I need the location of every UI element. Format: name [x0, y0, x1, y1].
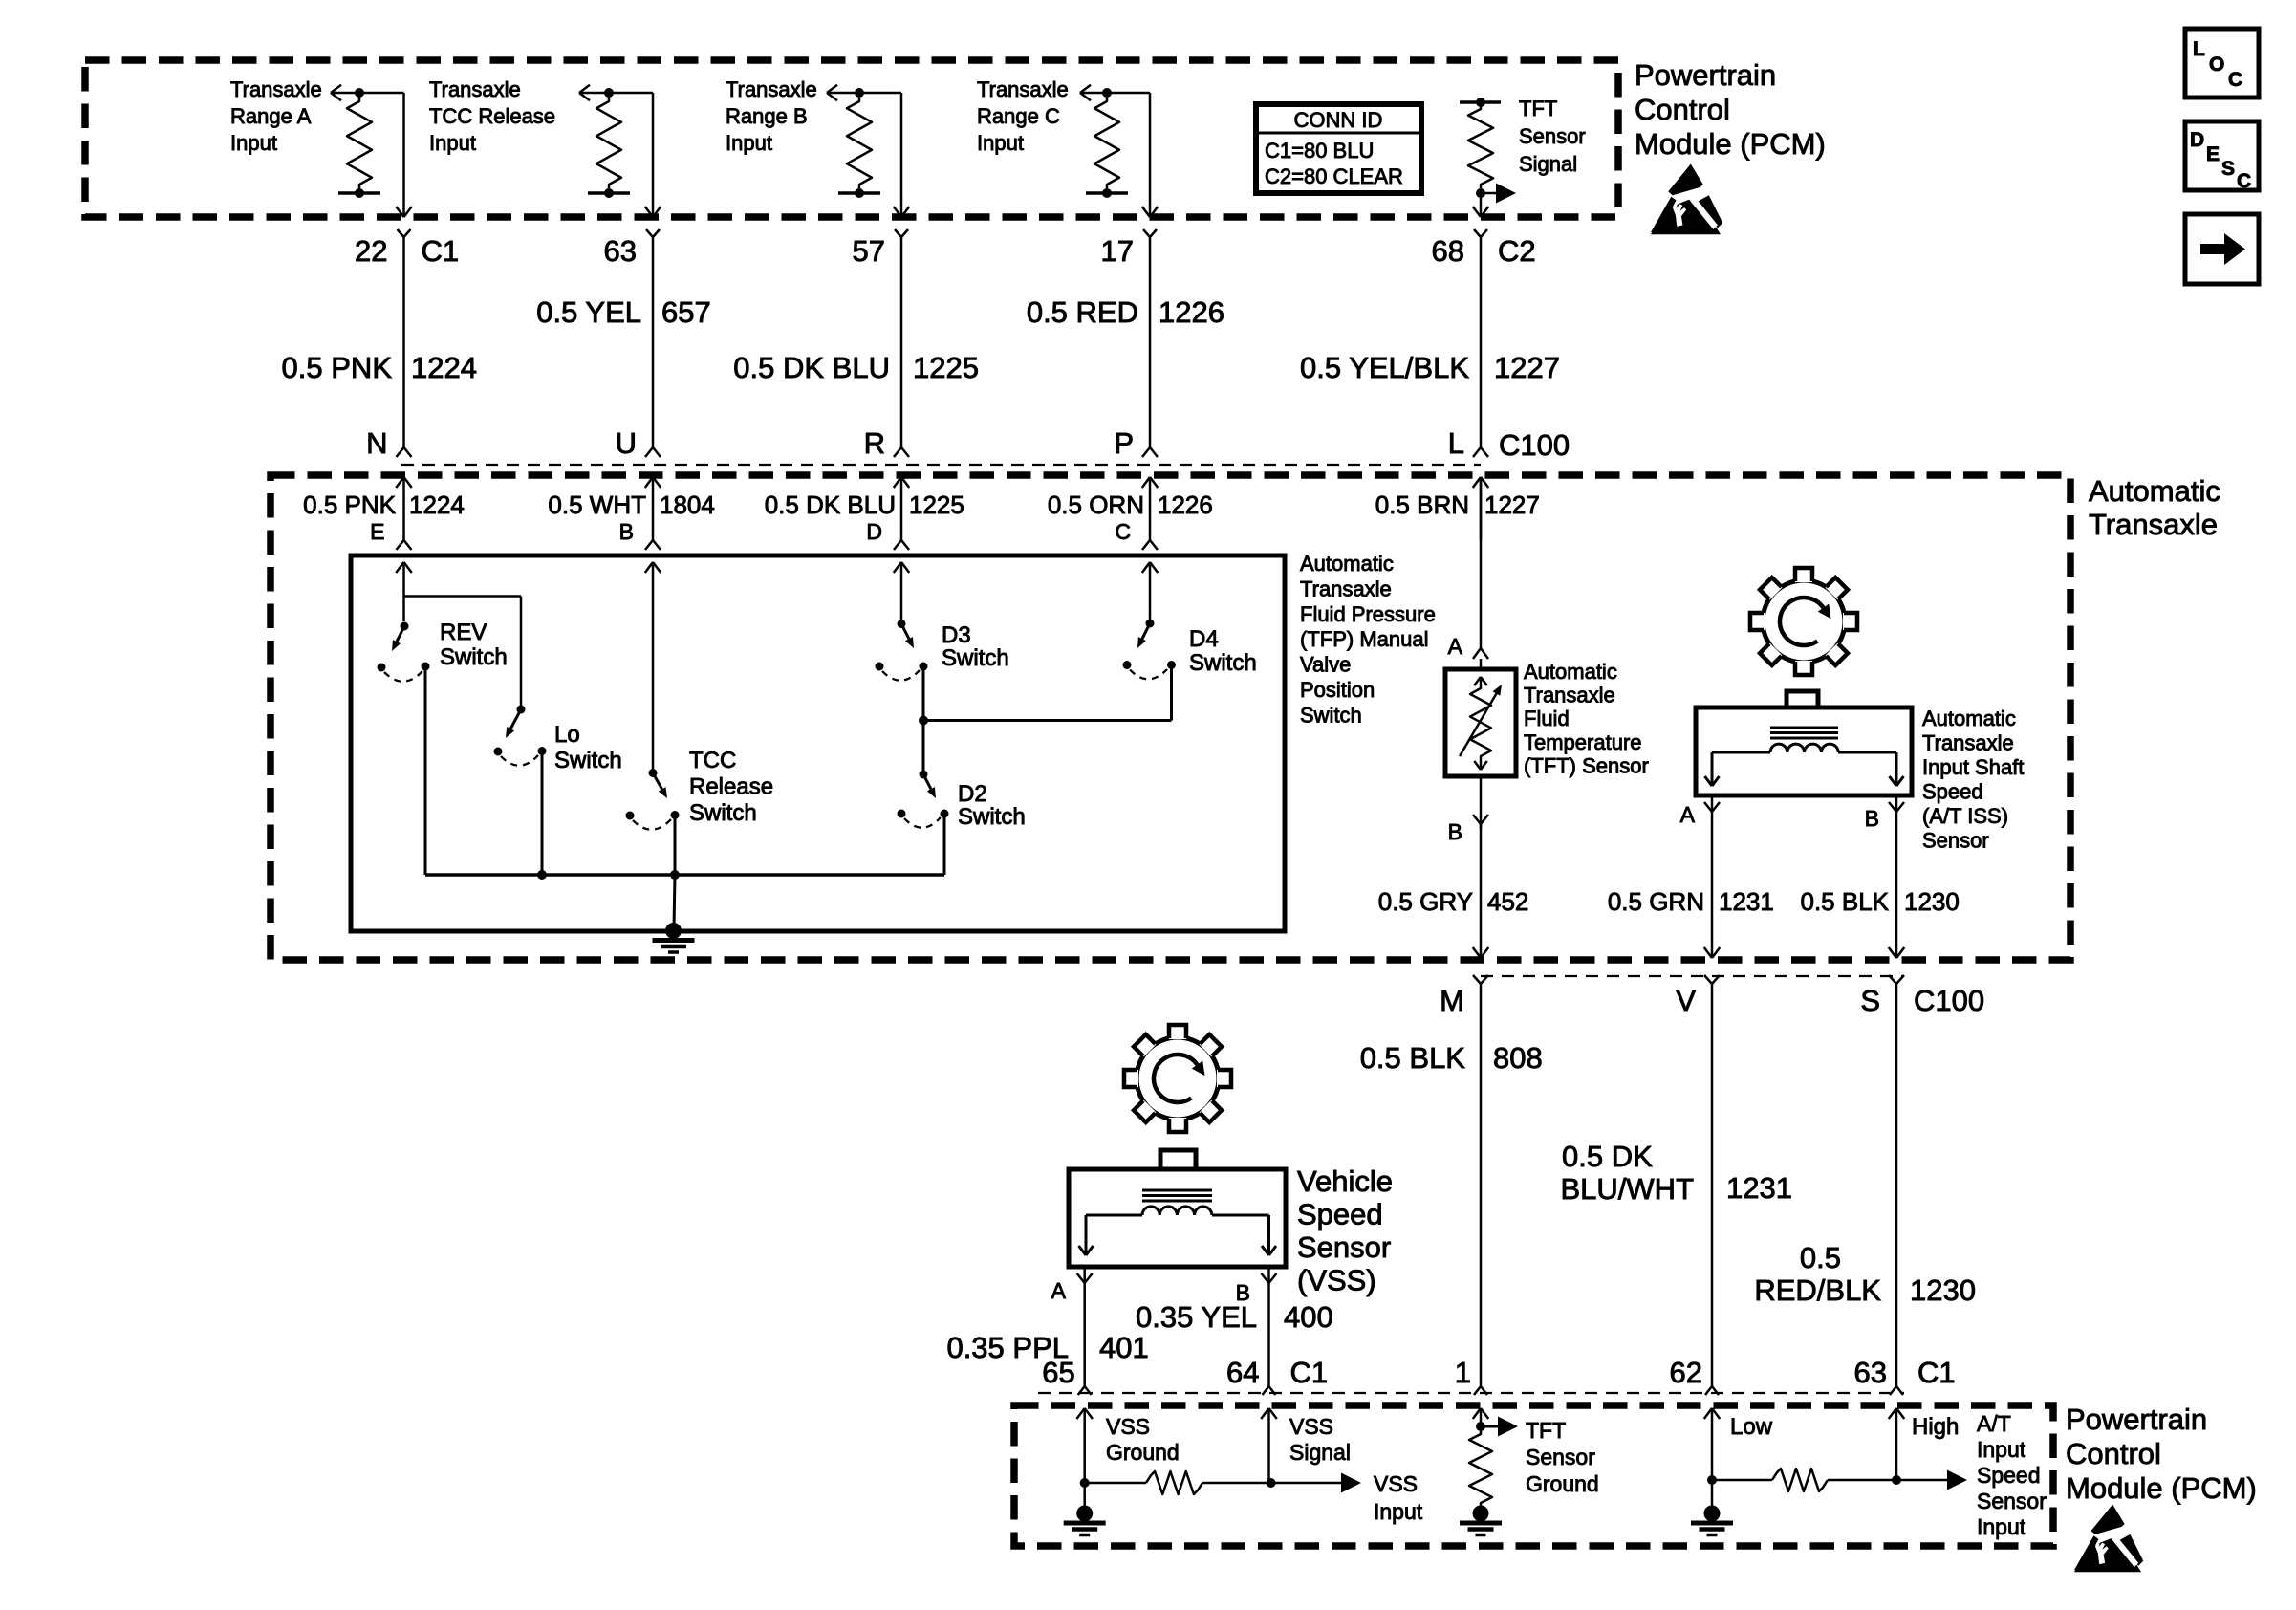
A/T ISS pin A: [1680, 795, 1720, 827]
svg-text:TFT: TFT: [1526, 1418, 1566, 1443]
node VSS signal junction: [1267, 1478, 1276, 1488]
svg-text:U: U: [616, 426, 637, 460]
wire PCM output C: [1107, 93, 1158, 217]
forward arrow legend box: [2185, 214, 2259, 284]
svg-text:S: S: [1860, 984, 1880, 1017]
pin number 17: [1101, 234, 1134, 268]
connector name C1 (bottom): [1290, 1356, 1329, 1389]
svg-text:C1: C1: [1917, 1356, 1956, 1389]
svg-text:C1=80 BLU: C1=80 BLU: [1265, 139, 1374, 163]
switch D4: [1123, 620, 1177, 680]
label VSS Input: [1374, 1471, 1423, 1524]
wire switch common bus: [425, 873, 944, 877]
svg-text:P: P: [1114, 426, 1134, 460]
label Automatic Transaxle Fluid Pressure (TFP) Manual Valve Position Switch: [1300, 552, 1436, 727]
wire label 0.5 ORN 1226 (transaxle): [1048, 490, 1213, 519]
svg-text:0.5 YEL/BLK: 0.5 YEL/BLK: [1300, 351, 1469, 384]
label TCC Release Switch: [689, 748, 773, 826]
connector C100 line (upper): [401, 464, 1481, 466]
label Transaxle TCC Release Input: [429, 77, 555, 155]
svg-text:Transaxle: Transaxle: [977, 77, 1069, 101]
svg-text:Signal: Signal: [1519, 152, 1577, 176]
svg-text:1804: 1804: [660, 490, 715, 519]
svg-text:Sensor: Sensor: [1922, 829, 1989, 853]
resistor PCM pull-up TCC: [588, 88, 630, 198]
DESC legend box: [2185, 121, 2259, 192]
svg-text:Ground: Ground: [1526, 1471, 1599, 1496]
TFT sensor variable resistor: [1460, 677, 1502, 770]
wire label 0.35 YEL 400: [1136, 1300, 1333, 1334]
svg-text:0.5 DK BLU: 0.5 DK BLU: [765, 490, 896, 519]
connector name C100 (lower): [1914, 984, 1984, 1017]
label Vehicle Speed Sensor (VSS): [1297, 1164, 1393, 1297]
switch Lo: [494, 706, 547, 876]
wire 1231 in transaxle: [1704, 812, 1721, 958]
switch TCC Release: [626, 769, 680, 875]
svg-text:0.5 YEL: 0.5 YEL: [536, 295, 641, 329]
svg-text:A: A: [1680, 802, 1696, 827]
svg-text:400: 400: [1284, 1300, 1333, 1334]
svg-text:1227: 1227: [1494, 351, 1560, 384]
svg-text:Module (PCM): Module (PCM): [2066, 1471, 2257, 1505]
svg-text:Switch: Switch: [1189, 650, 1257, 676]
svg-text:L: L: [2193, 38, 2205, 60]
A/T ISS sensor coil: [1705, 728, 1904, 786]
resistor PCM pull-up B: [838, 88, 880, 198]
svg-text:1226: 1226: [1159, 295, 1224, 329]
svg-text:Input: Input: [1374, 1499, 1423, 1524]
wire label 0.5 YEL 657: [536, 295, 710, 329]
switch D3: [876, 620, 928, 721]
TFP switch pin E: [370, 519, 411, 550]
svg-text:REV: REV: [440, 620, 487, 645]
TFT sensor box: [1445, 669, 1516, 776]
svg-text:L: L: [1448, 426, 1464, 460]
wire PCM output A: [359, 93, 412, 217]
svg-text:Valve: Valve: [1300, 653, 1351, 677]
label Transaxle Range C Input: [977, 77, 1069, 155]
wire into Automatic Transaxle: [894, 477, 910, 540]
svg-text:VSS: VSS: [1106, 1414, 1150, 1439]
svg-text:1231: 1231: [1726, 1171, 1792, 1205]
svg-text:Transaxle: Transaxle: [1524, 684, 1615, 707]
arrow A/T Input Speed Sensor Input: [1896, 1470, 1967, 1490]
svg-text:Powertrain: Powertrain: [1635, 58, 1776, 92]
svg-text:A: A: [1051, 1278, 1067, 1303]
svg-text:Speed: Speed: [1977, 1463, 2041, 1488]
svg-text:CONN ID: CONN ID: [1294, 108, 1383, 132]
connector pin 22 fork: [398, 229, 411, 447]
svg-text:M: M: [1440, 984, 1464, 1017]
wire 452 in transaxle: [1473, 824, 1489, 958]
connector pin 68 fork: [1474, 229, 1487, 447]
pin number 22: [355, 234, 387, 268]
svg-text:Transaxle: Transaxle: [2089, 508, 2218, 541]
wire 1227 to TFT sensor: [1480, 477, 1483, 648]
connector C100 pin S: [1860, 975, 1904, 1386]
node Lo-bus junction: [537, 870, 547, 880]
svg-text:C: C: [1115, 519, 1131, 544]
svg-text:65: 65: [1042, 1356, 1074, 1389]
pin number 63: [604, 234, 637, 268]
svg-text:Speed: Speed: [1922, 780, 1983, 804]
pin number 63 (bottom): [1854, 1356, 1887, 1389]
svg-text:TFT: TFT: [1519, 97, 1557, 120]
svg-text:Transaxle: Transaxle: [726, 77, 817, 101]
resistor A/T ISS input: [1712, 1469, 1896, 1491]
ESD warning icon (bottom PCM): [2074, 1504, 2143, 1572]
wire label 0.5 YEL/BLK 1227: [1300, 351, 1560, 384]
svg-text:B: B: [619, 519, 634, 544]
svg-text:D: D: [866, 519, 882, 544]
PCM module dashed box (bottom): [1014, 1405, 2053, 1546]
svg-text:Switch: Switch: [1300, 703, 1362, 727]
gear icon VSS: [1124, 1025, 1231, 1132]
node TFT ground junction: [1476, 1422, 1485, 1431]
svg-text:C1: C1: [422, 234, 460, 268]
wire TFP switch input: [645, 562, 661, 770]
connector pin 57 fork: [895, 229, 908, 447]
svg-text:57: 57: [853, 234, 885, 268]
arrow TFT Sensor Signal: [1481, 184, 1516, 204]
svg-text:1231: 1231: [1719, 887, 1774, 916]
gear icon ISS: [1750, 568, 1857, 675]
svg-text:(TFT) Sensor: (TFT) Sensor: [1524, 753, 1649, 777]
svg-text:0.5 ORN: 0.5 ORN: [1048, 490, 1144, 519]
svg-text:Transaxle: Transaxle: [1300, 577, 1392, 600]
connector C1 line (bottom PCM): [1038, 1392, 1904, 1394]
connector pin 65 fork (bottom): [1078, 1386, 1092, 1395]
svg-text:Sensor: Sensor: [1977, 1489, 2047, 1513]
connector pin 1 fork (bottom): [1474, 1386, 1487, 1395]
svg-text:C: C: [2228, 69, 2242, 91]
connector pin 63 fork: [646, 229, 660, 447]
wire TFP switch input: [894, 562, 910, 621]
svg-text:E: E: [2206, 143, 2220, 165]
connector name C100 (upper): [1499, 428, 1570, 462]
svg-text:68: 68: [1432, 234, 1464, 268]
svg-text:O: O: [2209, 54, 2224, 76]
svg-text:(TFP) Manual: (TFP) Manual: [1300, 627, 1428, 651]
wire label 0.35 PPL 401: [946, 1331, 1148, 1364]
arrow to Transaxle TCC Release Input: [579, 85, 609, 101]
svg-text:401: 401: [1099, 1331, 1149, 1364]
svg-text:657: 657: [661, 295, 711, 329]
svg-text:0.5 PNK: 0.5 PNK: [282, 351, 393, 384]
ground TFP switch: [653, 875, 695, 952]
wire 1230 in transaxle: [1889, 812, 1905, 958]
svg-text:1: 1: [1455, 1356, 1471, 1389]
svg-text:Control: Control: [2066, 1437, 2161, 1470]
svg-text:64: 64: [1226, 1356, 1259, 1389]
TFP switch pin D: [866, 519, 909, 550]
svg-text:Switch: Switch: [958, 804, 1026, 830]
svg-text:0.5 BLK: 0.5 BLK: [1360, 1041, 1466, 1075]
wire TCC junction to ground: [674, 875, 675, 928]
svg-text:C100: C100: [1499, 428, 1570, 462]
wire into Automatic Transaxle: [645, 477, 661, 540]
svg-text:Automatic: Automatic: [1922, 707, 2016, 730]
svg-text:1224: 1224: [411, 351, 477, 384]
svg-text:Automatic: Automatic: [2089, 474, 2220, 508]
wire label 0.5 RED 1226: [1027, 295, 1224, 329]
svg-text:Control: Control: [1635, 93, 1730, 126]
label D2 Switch: [958, 781, 1026, 830]
label Transaxle Range A Input: [230, 77, 322, 155]
svg-text:0.5 WHT: 0.5 WHT: [548, 490, 646, 519]
connector pin 64 fork (bottom): [1263, 1386, 1276, 1395]
TFT sensor pin B: [1448, 776, 1488, 844]
label VSS Ground: [1106, 1414, 1180, 1465]
svg-text:Position: Position: [1300, 678, 1375, 702]
svg-text:0.5 PNK: 0.5 PNK: [303, 490, 396, 519]
wire into bottom PCM: [1889, 1408, 1905, 1480]
arrow TFT Sensor Ground: [1481, 1417, 1518, 1437]
svg-text:VSS: VSS: [1289, 1414, 1333, 1439]
wire label 0.5 BLK 1230: [1800, 887, 1959, 916]
svg-text:V: V: [1676, 984, 1696, 1017]
wire label 0.5 BLK 808: [1360, 1041, 1543, 1075]
node Low junction: [1707, 1475, 1717, 1485]
resistor PCM pull-up A: [338, 88, 380, 198]
wire TFP switch input: [1142, 562, 1159, 620]
node TCC-bus junction: [670, 870, 680, 880]
LOC legend box: [2185, 29, 2259, 98]
svg-text:0.5 BLK: 0.5 BLK: [1800, 887, 1889, 916]
wire label 0.5 GRY 452: [1378, 887, 1529, 916]
connector C100 pin L: [1448, 426, 1488, 460]
label Low: [1730, 1414, 1773, 1440]
svg-text:Temperature: Temperature: [1524, 730, 1642, 754]
svg-text:1230: 1230: [1910, 1273, 1976, 1307]
wire into Automatic Transaxle: [1142, 477, 1159, 540]
svg-text:D3: D3: [942, 622, 971, 648]
svg-text:Release: Release: [689, 774, 773, 800]
wire TFP switch input: [396, 562, 412, 621]
connector C100 pin U: [616, 426, 661, 460]
wire into Automatic Transaxle: [396, 477, 412, 540]
wire D3 to D2: [922, 721, 925, 775]
svg-text:1225: 1225: [913, 351, 979, 384]
label TFT Sensor Signal: [1519, 97, 1586, 176]
resistor PCM pull-up C: [1086, 88, 1128, 198]
wire label 0.5 RED/BLK 1230: [1754, 1241, 1976, 1307]
CONN ID table: [1256, 104, 1421, 193]
A/T ISS sensor box: [1696, 691, 1912, 795]
svg-text:0.5 GRY: 0.5 GRY: [1378, 887, 1473, 916]
wire label 0.5 PNK 1224 (transaxle): [303, 490, 465, 519]
label VSS Signal: [1289, 1414, 1351, 1465]
svg-text:1230: 1230: [1904, 887, 1960, 916]
svg-text:Automatic: Automatic: [1300, 552, 1394, 576]
ground Low side: [1691, 1480, 1733, 1535]
svg-text:E: E: [370, 519, 384, 544]
connector name C1 (bottom): [1917, 1356, 1956, 1389]
resistor TFT sensor signal (PCM): [1460, 98, 1501, 198]
wire into bottom PCM: [1473, 1408, 1489, 1426]
svg-text:Input: Input: [230, 131, 277, 155]
wire label 0.5 DK BLU 1225: [733, 351, 979, 384]
svg-text:Ground: Ground: [1106, 1440, 1180, 1465]
svg-text:(A/T ISS): (A/T ISS): [1922, 804, 2008, 828]
node D3-D4 junction: [919, 716, 928, 726]
label High: [1912, 1414, 1959, 1440]
svg-text:RED/BLK: RED/BLK: [1754, 1273, 1881, 1307]
svg-text:Switch: Switch: [689, 800, 757, 826]
wire label 0.5 PNK 1224: [282, 351, 477, 384]
arrow VSS Input: [1271, 1473, 1361, 1493]
svg-text:0.5 GRN: 0.5 GRN: [1608, 887, 1704, 916]
svg-text:C1: C1: [1290, 1356, 1329, 1389]
svg-text:N: N: [366, 426, 387, 460]
svg-text:Range A: Range A: [230, 104, 312, 128]
Vehicle Speed Sensor box: [1069, 1150, 1286, 1267]
pin number 62 (bottom): [1670, 1356, 1702, 1389]
svg-text:C2: C2: [1498, 234, 1536, 268]
svg-text:R: R: [864, 426, 885, 460]
svg-text:Automatic: Automatic: [1524, 660, 1617, 684]
svg-text:0.35 YEL: 0.35 YEL: [1136, 1300, 1257, 1334]
svg-text:Fluid Pressure: Fluid Pressure: [1300, 602, 1436, 626]
svg-text:22: 22: [355, 234, 387, 268]
svg-text:Low: Low: [1730, 1414, 1773, 1440]
label TFT Sensor Ground: [1526, 1418, 1599, 1496]
svg-text:A/T: A/T: [1977, 1411, 2011, 1436]
connector C100 pin P: [1114, 426, 1158, 460]
label A/T Input Speed Sensor Input: [1977, 1411, 2047, 1539]
wire PCM output B: [859, 93, 909, 217]
svg-text:Sensor: Sensor: [1526, 1445, 1595, 1469]
svg-text:C: C: [2237, 170, 2251, 192]
label Lo Switch: [554, 722, 622, 773]
TFP manual valve position switch box: [351, 555, 1285, 931]
svg-text:0.5 DK: 0.5 DK: [1562, 1140, 1653, 1173]
svg-text:Transaxle: Transaxle: [429, 77, 521, 101]
label Automatic Transaxle Fluid Temperature (TFT) Sensor: [1524, 660, 1649, 777]
connector name C2: [1498, 234, 1536, 268]
pin number 57: [853, 234, 885, 268]
svg-text:0.5 RED: 0.5 RED: [1027, 295, 1138, 329]
svg-text:1224: 1224: [409, 490, 465, 519]
svg-text:Lo: Lo: [554, 722, 580, 748]
connector pin 63 fork (bottom): [1890, 1386, 1903, 1395]
arrow to Transaxle Range A Input: [331, 85, 359, 101]
switch D2: [898, 771, 949, 876]
wire label 0.5 WHT 1804 (transaxle): [548, 490, 714, 519]
ESD warning icon (top PCM): [1651, 164, 1722, 235]
svg-text:B: B: [1865, 806, 1879, 831]
svg-text:1227: 1227: [1484, 490, 1540, 519]
wire into bottom PCM: [1076, 1408, 1093, 1483]
svg-text:Fluid: Fluid: [1524, 707, 1570, 730]
TFT sensor pin A: [1448, 634, 1488, 669]
wire label 0.5 BRN 1227 (transaxle): [1375, 490, 1540, 519]
connector pin 62 fork (bottom): [1705, 1386, 1719, 1395]
svg-text:C100: C100: [1914, 984, 1984, 1017]
svg-text:Switch: Switch: [942, 645, 1009, 671]
svg-text:63: 63: [1854, 1356, 1887, 1389]
node High junction: [1892, 1475, 1901, 1485]
svg-text:BLU/WHT: BLU/WHT: [1561, 1172, 1695, 1206]
TFP switch pin C: [1115, 519, 1158, 550]
connector C100 pin N: [366, 426, 411, 460]
label Transaxle Range B Input: [726, 77, 817, 155]
PCM module dashed box (top): [85, 60, 1618, 217]
connector pin 17 fork: [1143, 229, 1157, 447]
connector C100 pin V: [1676, 975, 1720, 1386]
pin number 64 (bottom): [1226, 1356, 1259, 1389]
svg-text:Vehicle: Vehicle: [1297, 1164, 1393, 1198]
A/T ISS pin B: [1865, 795, 1904, 831]
pin number 1 (bottom): [1455, 1356, 1471, 1389]
VSS pin A: [1051, 1267, 1093, 1386]
TFP switch pin B: [619, 519, 661, 550]
arrow to Transaxle Range B Input: [827, 85, 859, 101]
svg-text:Switch: Switch: [554, 748, 622, 773]
svg-text:Sensor: Sensor: [1297, 1230, 1391, 1264]
svg-text:D4: D4: [1189, 626, 1219, 652]
svg-text:B: B: [1448, 819, 1462, 844]
connector C100 line (lower): [1481, 975, 1904, 977]
svg-text:S: S: [2221, 158, 2235, 180]
svg-text:C2=80 CLEAR: C2=80 CLEAR: [1265, 164, 1403, 188]
wire PCM output TCC: [609, 93, 661, 217]
svg-text:17: 17: [1101, 234, 1134, 268]
svg-text:Sensor: Sensor: [1519, 124, 1586, 148]
svg-text:Input: Input: [429, 131, 476, 155]
Automatic Transaxle dashed box: [271, 475, 2070, 960]
label Automatic Transaxle: [2089, 474, 2220, 541]
svg-text:Signal: Signal: [1289, 1440, 1351, 1465]
svg-text:0.5: 0.5: [1800, 1241, 1841, 1274]
svg-text:63: 63: [604, 234, 637, 268]
svg-text:Range B: Range B: [726, 104, 808, 128]
wire into bottom PCM: [1704, 1408, 1721, 1480]
svg-text:Transaxle: Transaxle: [230, 77, 322, 101]
svg-text:A: A: [1448, 634, 1463, 659]
label D3 Switch: [942, 622, 1009, 671]
svg-text:1225: 1225: [909, 490, 964, 519]
VSS pin B: [1236, 1267, 1277, 1386]
svg-text:TCC: TCC: [689, 748, 736, 773]
Vehicle Speed Sensor coil: [1079, 1190, 1277, 1255]
wire into Automatic Transaxle: [1473, 477, 1489, 540]
connector C100 pin R: [864, 426, 909, 460]
svg-text:62: 62: [1670, 1356, 1702, 1389]
svg-text:0.5 BRN: 0.5 BRN: [1375, 490, 1469, 519]
svg-text:Switch: Switch: [440, 644, 508, 670]
node VSS ground junction: [1080, 1478, 1090, 1488]
ground VSS: [1064, 1483, 1106, 1535]
switch REV: [378, 622, 430, 876]
svg-text:Input: Input: [977, 131, 1024, 155]
svg-text:Transaxle: Transaxle: [1922, 731, 2014, 755]
wire label 0.5 DK BLU/WHT 1231: [1561, 1140, 1792, 1206]
wire REV branch to Lo: [404, 597, 522, 708]
svg-text:Input Shaft: Input Shaft: [1922, 755, 2024, 779]
arrow to Transaxle Range C Input: [1080, 85, 1107, 101]
resistor TFT sensor ground: [1469, 1430, 1492, 1507]
resistor VSS input: [1085, 1471, 1271, 1494]
svg-text:Input: Input: [1977, 1437, 2026, 1462]
svg-text:Speed: Speed: [1297, 1198, 1383, 1231]
wire label 0.5 GRN 1231: [1608, 887, 1774, 916]
svg-text:Powertrain: Powertrain: [2066, 1403, 2207, 1436]
wire D4 link: [923, 665, 1172, 721]
pin number 65 (bottom): [1042, 1356, 1074, 1389]
svg-text:Input: Input: [1977, 1514, 2026, 1539]
svg-text:Input: Input: [726, 131, 772, 155]
